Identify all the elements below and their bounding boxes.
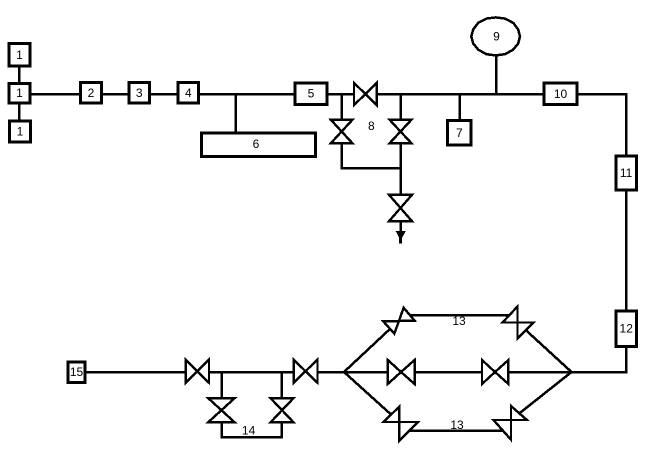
svg-text:2: 2: [88, 86, 95, 100]
svg-text:3: 3: [136, 86, 143, 100]
svg-text:1: 1: [16, 48, 23, 62]
svg-text:13: 13: [452, 314, 466, 328]
svg-text:7: 7: [456, 126, 463, 140]
svg-text:9: 9: [493, 29, 500, 43]
svg-text:6: 6: [253, 137, 260, 151]
svg-text:13: 13: [450, 418, 464, 432]
svg-text:15: 15: [70, 365, 84, 379]
svg-text:12: 12: [620, 322, 634, 336]
svg-text:5: 5: [308, 87, 315, 101]
svg-text:1: 1: [16, 86, 23, 100]
svg-text:10: 10: [554, 87, 568, 101]
svg-text:1: 1: [17, 125, 24, 139]
svg-text:14: 14: [242, 423, 256, 437]
svg-text:11: 11: [620, 166, 633, 180]
svg-text:4: 4: [185, 86, 192, 100]
svg-text:8: 8: [368, 119, 375, 133]
